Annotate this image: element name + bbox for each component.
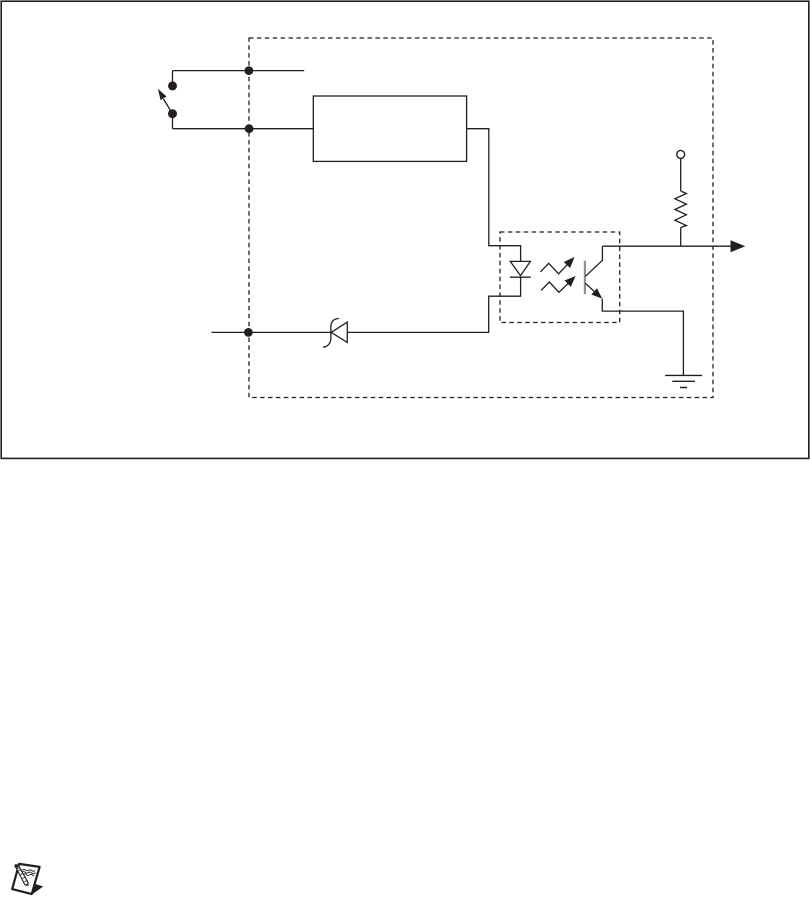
supply terminal circle bbox=[677, 150, 685, 158]
note icon pencil bands bbox=[17, 867, 27, 882]
note icon scribble lines bbox=[20, 869, 35, 876]
emitter wire to ground bbox=[602, 299, 683, 376]
switch top lead wire bbox=[172, 71, 174, 129]
output arrowhead bbox=[731, 240, 746, 252]
switch lever arrowhead bbox=[158, 89, 167, 100]
phototransistor emitter arrowhead bbox=[591, 288, 602, 299]
note icon paper bbox=[12, 864, 39, 894]
light ray arrow 2 head bbox=[565, 276, 576, 287]
switch top contact dot bbox=[168, 81, 177, 90]
wire resistor to node bbox=[680, 228, 682, 247]
note icon pencil tip bbox=[26, 883, 29, 886]
wire LED cathode to zener bbox=[347, 277, 520, 332]
light ray arrow 1 shaft bbox=[540, 263, 567, 274]
block box bbox=[313, 96, 466, 161]
isolation barrier dashed box bbox=[249, 38, 713, 398]
wire bottom horizontal bbox=[173, 128, 314, 130]
switch lever bbox=[164, 99, 173, 114]
wire junction dot bottom-left bbox=[244, 328, 253, 337]
zener diode wire left bbox=[212, 331, 332, 333]
zener diode curved cathode bbox=[323, 318, 339, 347]
optocoupler dashed box bbox=[500, 232, 620, 323]
zener diode triangle bbox=[331, 322, 347, 342]
wire terminal to resistor bbox=[680, 158, 682, 191]
phototransistor base bar bbox=[584, 261, 586, 294]
note icon pencil bbox=[16, 865, 29, 885]
light ray arrow 2 shaft bbox=[541, 282, 568, 292]
phototransistor collector bbox=[585, 246, 602, 276]
note icon bbox=[12, 864, 43, 894]
figure frame bbox=[1, 1, 809, 458]
phototransistor emitter bbox=[585, 283, 594, 291]
collector node wire bbox=[602, 245, 731, 247]
resistor R1 bbox=[675, 191, 687, 228]
switch bottom contact dot bbox=[168, 109, 177, 118]
ground bbox=[665, 375, 702, 387]
wire top horizontal bbox=[173, 70, 305, 72]
node junction dot bottom bbox=[245, 124, 254, 133]
wire from block to LED bbox=[467, 129, 521, 262]
node junction dot top bbox=[245, 66, 254, 75]
note icon shadow bbox=[33, 884, 43, 894]
LED D1 triangle bbox=[510, 261, 530, 275]
LED cathode bar bbox=[510, 276, 531, 278]
light ray arrow 1 head bbox=[564, 257, 575, 268]
note icon pencil eraser bbox=[14, 864, 18, 868]
